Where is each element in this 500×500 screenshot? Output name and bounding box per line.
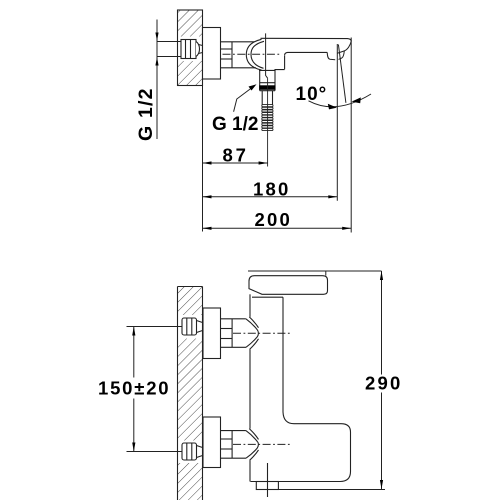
290 extension top (248, 270, 382, 272)
lower flare (251, 412, 351, 482)
body vertical axis line (266, 33, 268, 78)
wall outline (178, 10, 203, 86)
svg-text:200: 200 (255, 209, 292, 230)
10deg arrow right (352, 97, 361, 103)
left G1/2 top arrow (155, 33, 158, 42)
200 right arrow (342, 227, 351, 230)
body outline (250, 294, 351, 481)
collar under cap (252, 296, 283, 298)
svg-text:87: 87 (223, 145, 249, 166)
arm underside fillet (285, 52, 288, 55)
valve body dome outer arc (246, 39, 261, 70)
wall left edge (177, 287, 179, 500)
150 dimension line (133, 327, 135, 452)
svg-text:G 1/2: G 1/2 (135, 87, 157, 141)
right edge (282, 297, 284, 412)
wall hatch upper (178, 10, 203, 37)
spout cup left (327, 52, 335, 59)
top centerline dash-dot (233, 332, 292, 334)
290 dimension line (381, 271, 383, 489)
hose ribs (262, 105, 273, 131)
hose nut under body (256, 482, 278, 490)
hose tube (262, 91, 272, 105)
10deg extension line (336, 44, 338, 201)
290 top arrow (380, 271, 383, 280)
wall face extension line (202, 86, 204, 232)
top union cone (246, 317, 259, 350)
spout cup right (339, 51, 345, 60)
bottom centerline dash-dot (233, 443, 292, 445)
bottom escutcheon (203, 417, 221, 468)
G 1/2 leader arrowhead (249, 84, 257, 90)
bottom union threaded pipe (221, 431, 247, 459)
hose line (267, 463, 269, 497)
180 right arrow (328, 195, 337, 198)
lever top line (261, 38, 352, 41)
svg-text:180: 180 (253, 178, 290, 199)
wall hatch band 2 (178, 339, 203, 441)
body cap (lever side view) (249, 276, 328, 295)
wall hatch lower (178, 61, 203, 86)
150 extension line top (127, 326, 183, 328)
cap corner tick (325, 271, 327, 276)
10deg arrow left (328, 104, 337, 110)
G 1/2 leader line (234, 87, 254, 112)
supply pipe (157, 41, 181, 43)
arm underside (288, 51, 328, 53)
left edge segments (249, 294, 251, 317)
hose nut black band (259, 85, 275, 90)
lever nose underside (337, 41, 351, 53)
horizontal centerline dash-dot (223, 53, 282, 55)
200 extension vertical line (350, 38, 352, 233)
150 top arrow (132, 327, 135, 336)
10deg tilted lever axis (338, 45, 346, 103)
87 left arrow (203, 161, 212, 164)
bottom union cone (246, 429, 259, 461)
left G1/2 bottom arrow (155, 57, 158, 66)
left G1/2 dimension line (156, 20, 158, 140)
150 extension line bottom (127, 451, 183, 453)
180 dimension line (203, 196, 338, 198)
hex nut in wall (181, 40, 203, 59)
87 dimension line (203, 162, 268, 164)
290 bottom arrow (380, 480, 383, 489)
87 right arrow (259, 161, 268, 164)
top union threaded pipe (221, 319, 247, 348)
svg-text:G 1/2: G 1/2 (212, 114, 258, 135)
svg-text:10°: 10° (296, 84, 328, 105)
wall top edge (178, 286, 203, 288)
bottom hex nut (182, 443, 203, 460)
top escutcheon (203, 308, 221, 359)
valve body dome inner arc (251, 41, 264, 68)
wall hatch band 3 (178, 463, 203, 500)
wall flange escutcheon (203, 28, 221, 80)
wall hatch band 1 (178, 287, 203, 316)
body bottom line (259, 69, 285, 72)
180 left arrow (203, 195, 212, 198)
200 dimension line (203, 227, 352, 229)
10deg arc (309, 94, 372, 107)
150 bottom arrow (132, 443, 135, 452)
outlet body and hose nut (260, 70, 275, 90)
svg-text:290: 290 (365, 373, 402, 394)
svg-text:150±20: 150±20 (98, 377, 170, 398)
200 left arrow (203, 227, 212, 230)
top hex nut (182, 318, 203, 335)
wall right edge (202, 287, 204, 500)
body right edge (284, 56, 286, 70)
hose centerline (267, 78, 269, 166)
union nut between flange and body (221, 42, 257, 68)
290 extension bottom (256, 489, 385, 491)
